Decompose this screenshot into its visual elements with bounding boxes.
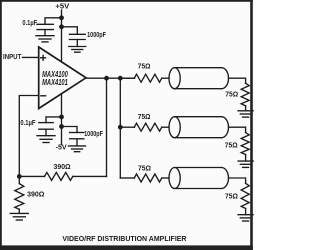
resistor R8 75 ohm (termination 3) xyxy=(241,183,249,214)
wire branch 2 xyxy=(120,126,134,128)
node output dot A xyxy=(104,76,109,81)
node junction dot bottom2 xyxy=(59,124,64,129)
coax cable 1 xyxy=(169,68,228,89)
svg-text:390Ω: 390Ω xyxy=(27,189,44,198)
node branch dot middle xyxy=(118,125,123,130)
wire coax2 to termination xyxy=(229,127,246,132)
wire +5V rail xyxy=(61,10,63,62)
resistor R7 75 ohm (branch 3 series) xyxy=(134,174,169,182)
ground (C2) xyxy=(69,47,86,53)
svg-text:0.1µF: 0.1µF xyxy=(20,118,35,127)
resistor R6 75 ohm (termination 2) xyxy=(241,133,249,162)
capacitor C3 0.1uF (bottom left) xyxy=(39,123,53,136)
wire output rail xyxy=(86,77,135,79)
svg-text:75Ω: 75Ω xyxy=(225,90,238,99)
wire branch trunk xyxy=(119,78,121,178)
wire coax1 to termination xyxy=(229,78,246,83)
svg-text:0.1µF: 0.1µF xyxy=(22,18,37,27)
op-amp U1 MAX4100/MAX4101 xyxy=(39,47,86,109)
wire V- rail xyxy=(61,95,63,145)
wire inverting input to feedback node xyxy=(19,96,38,177)
svg-text:MAX4101: MAX4101 xyxy=(42,77,68,87)
resistor R3 75 ohm (branch 1 series) xyxy=(134,74,169,82)
wire feedback vertical xyxy=(106,78,108,176)
node junction dot bottom1 xyxy=(59,115,64,120)
svg-text:75Ω: 75Ω xyxy=(138,164,151,173)
coax cable 3 xyxy=(169,168,229,189)
svg-text:75Ω: 75Ω xyxy=(138,62,151,71)
resistor R4 75 ohm (termination 1) xyxy=(241,83,249,111)
node junction dot top2 xyxy=(59,24,64,29)
resistor R1 390 ohm (vertical to ground) xyxy=(15,176,24,213)
node junction dot top1 xyxy=(59,15,64,20)
svg-text:75Ω: 75Ω xyxy=(138,112,151,121)
wire branch 3 xyxy=(120,177,134,179)
ground (R4) xyxy=(238,111,253,117)
ground (R6) xyxy=(238,161,253,167)
svg-text:VIDEO/RF DISTRIBUTION AMPLIFIE: VIDEO/RF DISTRIBUTION AMPLIFIER xyxy=(62,234,187,243)
ground (C4) xyxy=(69,146,86,152)
ground (C1) xyxy=(36,36,54,42)
svg-text:75Ω: 75Ω xyxy=(225,192,238,201)
capacitor C1 0.1uF (top left) xyxy=(37,24,53,35)
node feedback junction dot xyxy=(17,174,22,179)
wire coax3 to termination xyxy=(229,178,246,183)
ground (R8) xyxy=(238,215,253,221)
svg-text:1000pF: 1000pF xyxy=(84,129,103,138)
wire branch 1 xyxy=(120,77,134,79)
svg-text:390Ω: 390Ω xyxy=(54,162,71,171)
svg-text:INPUT: INPUT xyxy=(3,52,22,61)
frame border xyxy=(0,0,253,250)
resistor R5 75 ohm (branch 2 series) xyxy=(134,123,169,131)
capacitor C4 1000pF (bottom right) xyxy=(70,133,84,146)
capacitor C2 1000pF (top right) xyxy=(69,34,85,46)
resistor R2 390 ohm (feedback horizontal) xyxy=(19,172,106,180)
ground (C3) xyxy=(37,136,55,143)
svg-text:+5V: +5V xyxy=(55,2,69,11)
svg-text:-5V: -5V xyxy=(56,143,67,152)
svg-text:75Ω: 75Ω xyxy=(225,141,238,150)
wire to C2 xyxy=(62,27,78,34)
wire to C3 xyxy=(46,117,62,123)
wire to C4 xyxy=(62,127,78,133)
coax cable 2 xyxy=(169,117,229,138)
wire to C1 xyxy=(45,18,62,24)
svg-text:1000pF: 1000pF xyxy=(87,30,106,39)
wire input xyxy=(23,56,39,58)
node output dot B xyxy=(118,76,123,81)
ground (R1) xyxy=(10,213,28,220)
